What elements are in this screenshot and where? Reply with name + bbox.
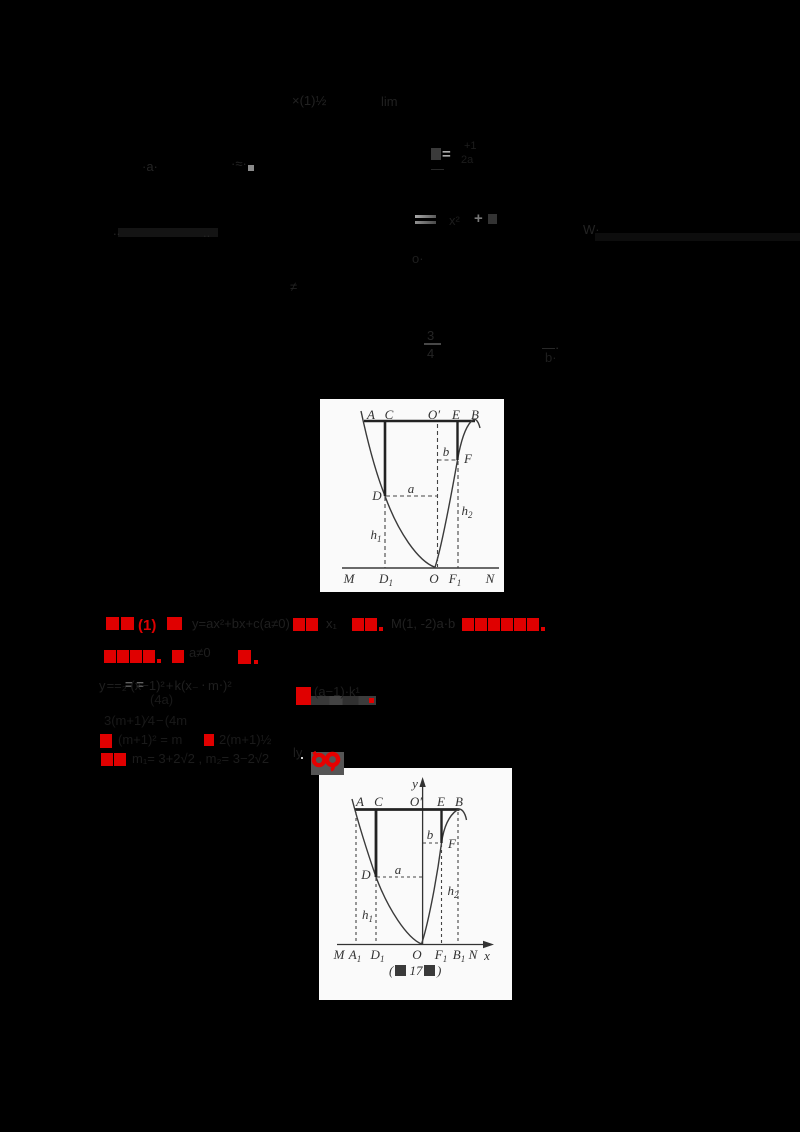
dashed horizontal b: [438, 459, 458, 461]
svg-text:): ): [436, 963, 441, 978]
svg-text:a: a: [395, 862, 402, 877]
figure 1: white box with parabola diagram: [320, 399, 504, 592]
svg-text:O: O: [412, 947, 422, 962]
dashed vertical F F1: [441, 844, 443, 944]
dashed horizontal a: [386, 495, 437, 497]
svg-text:x: x: [483, 948, 490, 963]
svg-text:b: b: [443, 444, 450, 459]
faint dark bar: [118, 228, 218, 237]
svg-text:h2: h2: [448, 883, 460, 900]
svg-text:h1: h1: [371, 527, 382, 544]
svg-text:F: F: [447, 836, 457, 851]
svg-text:B: B: [471, 407, 479, 422]
svg-text:C: C: [374, 794, 383, 809]
gray patch + red scrawl over figure 2 top-left corner: [311, 752, 344, 775]
dashed vertical B B1: [457, 812, 459, 944]
dashed vertical A A1: [355, 812, 357, 944]
line 5: red "jie de" + formula + red (she).: [101, 753, 127, 766]
figure 2: white box with parabola diagram and axes: [319, 768, 512, 1000]
svg-text:A1: A1: [348, 947, 361, 964]
svg-text:O′: O′: [410, 794, 422, 809]
svg-text:A: A: [366, 407, 375, 422]
svg-text:F: F: [463, 451, 473, 466]
bottom line MN: [342, 567, 499, 569]
svg-text:D: D: [360, 867, 371, 882]
parabola left branch through A and D to vertex O: [361, 411, 435, 567]
svg-text:N: N: [468, 947, 479, 962]
dashed vertical D D1: [384, 497, 386, 568]
top segment AB (thick): [355, 808, 460, 811]
svg-text:O′: O′: [428, 407, 440, 422]
svg-text:B: B: [455, 794, 463, 809]
x axis with arrow: [337, 944, 489, 946]
svg-text:F1: F1: [434, 947, 447, 964]
dashed vertical F F1: [457, 461, 459, 568]
svg-text:h2: h2: [462, 503, 474, 520]
dashed vertical O'O: [437, 424, 439, 567]
line 3: dark formula with red highlighted box: [125, 678, 144, 691]
dashed horizontal a: [377, 876, 422, 878]
dashed horizontal b: [423, 842, 441, 844]
svg-text:E: E: [436, 794, 445, 809]
svg-text:b: b: [427, 827, 434, 842]
svg-text:N: N: [485, 571, 496, 586]
svg-text:E: E: [451, 407, 460, 422]
line 4: dark stacked formulas with red marks: [104, 714, 187, 727]
thick vertical EF: [456, 421, 458, 460]
svg-text:O: O: [429, 571, 439, 586]
svg-text:B1: B1: [453, 947, 465, 964]
faint remnants of black text on black background (upper equations): [292, 94, 326, 107]
svg-text:A: A: [355, 794, 364, 809]
parabola right branch through F and B with hook: [435, 419, 480, 567]
svg-text:C: C: [385, 407, 394, 422]
svg-text:F1: F1: [448, 571, 461, 588]
small faint fraction at (425,335): [427, 329, 434, 342]
svg-text:(: (: [389, 963, 394, 978]
equation cluster with bright equals at (416,215): [415, 215, 436, 218]
top segment AB (thick): [364, 420, 475, 423]
thick vertical CD: [375, 810, 378, 877]
svg-text:M: M: [343, 571, 356, 586]
y axis with arrow: [422, 781, 424, 945]
dashed vertical D D1: [375, 878, 377, 944]
thick vertical EF: [440, 810, 442, 843]
gray band behind: [296, 696, 376, 705]
svg-text:y: y: [410, 776, 418, 791]
svg-text:D1: D1: [378, 571, 393, 588]
svg-text:a: a: [408, 481, 415, 496]
thick vertical CD: [384, 421, 387, 496]
svg-text:D: D: [371, 488, 382, 503]
red solid block: [296, 687, 311, 705]
svg-text:M: M: [333, 947, 346, 962]
parabola left branch: [352, 799, 422, 944]
parabola right branch with hook: [422, 809, 467, 944]
svg-text:D1: D1: [370, 947, 385, 964]
faint dots mid page: [113, 224, 120, 237]
red annotation line 1: [106, 617, 184, 633]
equation cluster with visible equals at (437,150): [431, 148, 441, 160]
svg-text:h1: h1: [362, 907, 373, 924]
red annotation line 2: [104, 650, 163, 663]
svg-text:17: 17: [410, 963, 424, 978]
